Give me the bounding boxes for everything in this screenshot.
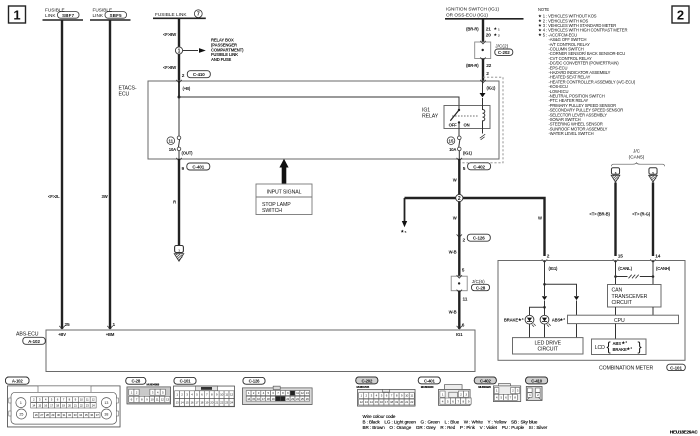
wire CPU to LED drive [576,324,578,338]
svg-text:(OUT): (OUT) [182,151,194,156]
svg-text:MU801840: MU801840 [421,385,434,389]
svg-text:OFF: OFF [449,123,458,128]
svg-text:4: 4 [625,340,627,344]
svg-text:MU804868: MU804868 [147,382,160,386]
connector C-28 drawing [126,377,171,404]
svg-text:(CANL): (CANL) [618,266,632,271]
svg-text:STOP LAMP: STOP LAMP [262,202,291,208]
svg-text:25: 25 [65,322,70,328]
wire to BRAKE led [530,301,546,316]
off-page connector below wire R [174,246,183,262]
svg-text:6: 6 [462,323,465,329]
svg-text:Wire colour code: Wire colour code [363,414,396,419]
ETACS pin 9 exit [176,158,184,172]
svg-text:OR OSS-ECU (IG1): OR OSS-ECU (IG1) [446,12,488,17]
relay coil [480,98,485,140]
svg-text:11: 11 [168,139,173,144]
svg-text:ETACS-: ETACS- [119,86,137,92]
svg-text:W-B: W-B [449,310,457,315]
combination meter box [498,261,685,372]
svg-text:1: 1 [113,322,116,328]
svg-text:<T> (R-G): <T> (R-G) [632,212,650,217]
svg-text:(+B): (+B) [183,86,191,91]
svg-text:C-202: C-202 [498,50,510,55]
wire bus right from splice 2 to meter [463,198,550,262]
svg-text:2: 2 [182,73,185,79]
svg-text:3: 3 [563,317,565,321]
svg-text:15: 15 [449,139,454,144]
wire colour code legend [363,414,548,430]
wire W splice 2 down to C-126 [453,202,466,244]
wire bus left from splice 2 [405,197,456,199]
svg-text:BR : Brown O : Orange GR: BR : Brown O : Orange GR : Grey R : Red … [363,425,548,430]
svg-text:15: 15 [186,401,189,405]
twisted pair symbol [614,275,654,279]
svg-text:3: 3 [522,317,524,321]
svg-text:LCD: LCD [595,345,605,351]
wire IG1 inside meter [543,261,576,297]
svg-text:21: 21 [486,27,491,33]
wire SBF5 to ABS-ECU pin 1 [102,20,116,329]
power source FUSIBLE LINK SBF5 [90,7,131,20]
wire diode to CPU [576,301,578,316]
connector C-401 drawing [418,377,471,405]
LED drive circuit box [513,338,584,354]
svg-text:C-28: C-28 [476,285,486,290]
svg-text:J/C(2): J/C(2) [495,44,508,49]
svg-text:(BR-R): (BR-R) [466,63,479,68]
wire +B bus to relay [178,81,460,136]
svg-text:C-410: C-410 [193,72,205,77]
branch arrow to relay box [183,48,206,53]
svg-text:14: 14 [655,254,660,260]
svg-text:IGNITION SWITCH (IG1): IGNITION SWITCH (IG1) [446,7,499,12]
connector C-402 drawing [474,377,520,402]
svg-text:<F>8W: <F>8W [163,65,176,70]
LED BRAKE lamp [525,315,536,337]
ETACS dashed extension [460,77,504,163]
connector C-126 label [467,234,490,241]
svg-text:ON: ON [464,123,470,128]
wire colour code legend [363,414,548,430]
svg-text:RELAY: RELAY [422,114,439,120]
diode brake/abs branch [542,296,547,300]
svg-text:C-101: C-101 [180,379,192,384]
wire CPU to LCD [615,324,617,339]
svg-text:9: 9 [182,166,185,172]
label ABS star3 [552,317,565,323]
wire splice 1 to ETACS pin 2 [163,54,185,81]
connector C-410 drawing [526,377,548,400]
svg-text:HEU18E29AC: HEU18E29AC [670,429,698,434]
connector C-28 drawing [126,377,171,404]
svg-text:LED DRIVE: LED DRIVE [534,341,561,347]
svg-text:2: 2 [458,196,461,202]
splice node 1 [175,47,182,55]
junction J/C (CAN5) title [612,149,665,167]
off-page connector CAN-L top [611,168,620,182]
connector C-101 drawing [174,377,235,406]
svg-text:22: 22 [486,63,491,69]
svg-text:INPUT SIGNAL: INPUT SIGNAL [267,190,302,196]
svg-text:CAN: CAN [612,288,623,294]
connector C-401 label [187,163,210,170]
svg-text:3W: 3W [102,194,108,199]
callout RELAY BOX text [211,38,244,63]
svg-text:11: 11 [463,297,468,303]
callout INPUT SIGNAL STOP LAMP SWITCH box [256,184,312,215]
svg-text:1: 1 [498,28,500,32]
svg-text:C-410: C-410 [531,378,543,383]
svg-text:2: 2 [463,237,466,243]
connector C-401 drawing [418,377,471,405]
svg-text:IG1: IG1 [456,332,463,337]
connector C-202 drawing [356,377,415,406]
svg-text:14: 14 [181,401,184,405]
svg-text:<F>2L: <F>2L [48,194,60,199]
svg-text:10: 10 [151,397,154,401]
svg-text:C-401: C-401 [424,378,436,383]
connector C-126 drawing [243,377,313,404]
svg-text:25: 25 [19,413,23,417]
svg-text:C-202: C-202 [361,378,373,383]
connector C-410 label at ETACS entry [187,71,210,78]
svg-text:COMBINATION METER: COMBINATION METER [599,366,653,372]
svg-text:SBF7: SBF7 [62,13,75,18]
label BRAKE star3 [504,317,524,323]
sheet number box 2 [672,6,689,23]
node +B entry [176,80,191,91]
connector C-28 label [472,284,490,290]
svg-text:AND FUSE: AND FUSE [211,57,232,62]
svg-text:2: 2 [547,254,550,260]
svg-text:W: W [453,216,457,221]
svg-text:+BM: +BM [106,332,115,337]
svg-text:BRAKE: BRAKE [613,347,627,352]
off-page connector CAN-H top [649,168,658,182]
svg-text:}: } [638,340,642,354]
svg-text:B : Black LG : Light green: B : Black LG : Light green G : Green L :… [363,419,538,424]
connector A-102 drawing [6,377,121,427]
svg-text:A-102: A-102 [12,379,24,384]
wire W relay output to splice 2 [453,159,460,195]
relay IG1 RELAY [422,106,490,130]
wire CAN-H to meter pin 14 [632,183,661,263]
CAN transceiver circuit box [608,285,662,308]
callout INPUT SIGNAL arrow [279,159,288,184]
svg-text:J/C: J/C [633,149,641,154]
power source IGNITION SWITCH title [445,7,524,19]
svg-text:(CAN5): (CAN5) [629,155,645,160]
power source FUSIBLE LINK 7 [153,10,206,19]
svg-text:13: 13 [104,401,108,405]
svg-text:{: { [607,340,611,354]
svg-text:1: 1 [20,401,22,405]
svg-text:(IG1): (IG1) [549,266,559,271]
wire W-B C-126 to J/C(6) [449,236,465,276]
svg-text:38: 38 [104,413,108,417]
junction J/C(6) C-28 [451,275,485,293]
ETACS-ECU box [119,81,500,159]
ETACS pin 5 exit [457,158,466,172]
svg-text:ABS-ECU: ABS-ECU [16,331,39,337]
wire CANL into transceiver [615,261,617,285]
splice node 2 [456,194,463,202]
svg-text:+BV: +BV [58,332,66,337]
svg-text:<T> (BR-B): <T> (BR-B) [589,212,610,217]
svg-text:C-126: C-126 [473,236,485,241]
fuse 15 10A [447,129,472,160]
svg-text:C-101: C-101 [670,365,682,370]
svg-text:ECU: ECU [119,92,130,98]
svg-text:(BR-R): (BR-R) [466,27,479,32]
wire CAN-L to meter pin 15 [589,183,623,263]
junction J/C(2) C-202 [475,41,509,61]
svg-text:CIRCUIT: CIRCUIT [612,300,633,306]
connector C-202 drawing [356,377,415,406]
svg-text:20: 20 [486,33,491,39]
svg-text:W: W [538,216,542,221]
diode in ETACS ignition branch [480,80,497,98]
svg-text:C-402: C-402 [473,164,485,169]
svg-text:20: 20 [210,401,213,405]
connector C-101 drawing [174,377,235,406]
svg-text:J/C(6): J/C(6) [472,279,485,284]
svg-text:LINK: LINK [93,13,104,18]
svg-text:(IG1): (IG1) [487,86,497,91]
svg-text:4: 4 [630,346,632,350]
wire ignition to J/C(2), pins 21/20 [466,19,500,42]
svg-text:LINK: LINK [45,13,56,18]
wire W-B J/C(6) to ABS-ECU pin 6 [449,291,468,329]
svg-text:1: 1 [13,8,20,23]
svg-text:W: W [453,178,457,183]
wire SBF7 to ABS-ECU pin 25 [48,20,70,329]
wire J/C(2) to ETACS pin 2 [466,59,492,82]
svg-text:2: 2 [498,34,500,38]
LCD box [592,339,647,355]
svg-text:C-126: C-126 [249,379,261,384]
connector C-402 label [468,163,491,170]
wire CANH into transceiver [652,261,654,285]
svg-text:10A: 10A [449,147,456,152]
svg-text:ABS: ABS [613,341,622,346]
svg-text:ABS: ABS [552,318,561,323]
svg-text:C-402: C-402 [480,378,492,383]
branch arrow to star5 ECUs [401,198,408,234]
svg-text:(CANH): (CANH) [656,266,671,271]
connector A-102 label [23,337,46,344]
connector C-402 drawing [474,377,520,402]
svg-text:1: 1 [178,49,181,55]
svg-text:R: R [173,200,176,205]
svg-text:MU801515: MU801515 [357,385,370,389]
svg-text:2: 2 [486,71,489,77]
svg-text:(IG1): (IG1) [463,151,473,156]
svg-text:5: 5 [463,166,466,172]
svg-text:BRAKE: BRAKE [504,318,518,323]
sheet number box 1 [9,6,26,23]
svg-text:C-28: C-28 [132,379,141,384]
svg-text:NOTE: NOTE [538,7,549,12]
svg-text:2: 2 [677,8,684,23]
connector A-102 drawing [6,377,121,427]
svg-text:-WATER LEVEL SWITCH: -WATER LEVEL SWITCH [549,131,594,136]
svg-text:SWITCH: SWITCH [262,208,282,214]
power source FUSIBLE LINK SBF7 [43,7,84,20]
svg-text:CIRCUIT: CIRCUIT [538,347,559,353]
svg-text:CPU: CPU [614,318,625,324]
connector C-410 drawing [526,377,548,400]
wires transceiver to CPU [616,307,654,315]
ABS-ECU box [16,330,475,372]
svg-text:C-401: C-401 [192,165,204,170]
svg-text:W-B: W-B [449,250,457,255]
svg-text:10A: 10A [169,147,176,152]
svg-text:TRANSCEIVER: TRANSCEIVER [612,294,648,300]
svg-text:SBF5: SBF5 [110,13,123,18]
CPU box [568,315,679,324]
NOTE block [538,7,636,136]
svg-text:<F>8W: <F>8W [163,32,176,37]
svg-text:MU801920: MU801920 [478,385,491,389]
svg-text:5: 5 [462,267,465,273]
wire fusible link 7 to ETACS [163,18,179,47]
connector C-101 label [667,364,686,370]
svg-text:15: 15 [618,254,623,260]
svg-text:FUSIBLE LINK: FUSIBLE LINK [155,12,187,17]
connector C-202 label [495,49,513,55]
svg-text:5: 5 [405,230,407,234]
connector C-126 drawing [243,377,313,404]
fuse 11 10A [167,136,193,159]
diode cpu branch [574,296,579,300]
svg-text:IG1: IG1 [422,108,430,114]
wire R to off-page connector [173,159,179,246]
LED ABS lamp [540,315,551,337]
svg-text:7: 7 [197,12,200,18]
svg-text:A-102: A-102 [28,339,40,344]
